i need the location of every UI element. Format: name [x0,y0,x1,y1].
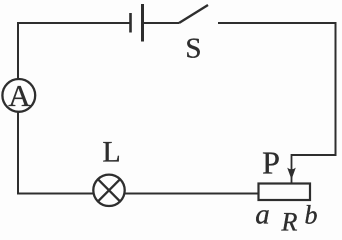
svg-text:a: a [255,199,270,231]
rheostat R body [259,184,311,201]
svg-text:b: b [305,201,318,230]
wire right vertical [335,22,337,156]
wire switch contact to top-right corner [218,22,336,24]
svg-text:A: A [8,78,31,113]
wire left vertical upper [17,22,19,80]
lamp L [93,175,124,206]
wire left vertical lower [18,112,94,194]
ammeter A [2,79,35,112]
svg-text:P: P [262,144,280,180]
wire lamp to rheostat [124,193,258,195]
svg-text:L: L [102,135,120,168]
switch S blade [179,5,208,23]
wire battery to switch [144,22,179,24]
svg-text:R: R [281,208,298,236]
wire top-left horizontal [18,22,130,24]
battery cell [131,4,143,42]
svg-text:S: S [185,32,201,64]
wire to slider [292,154,337,156]
slider P arrow [287,154,296,183]
